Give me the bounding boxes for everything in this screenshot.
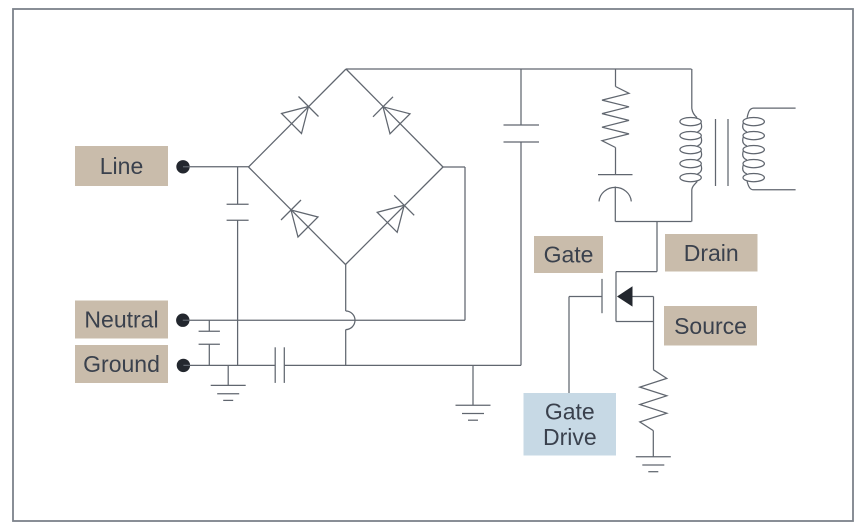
wire source down [653,297,655,370]
svg-text:Drive: Drive [543,424,597,450]
svg-text:Source: Source [674,313,747,339]
diode D4 bridge bottom-right [377,205,404,232]
transformer T1 core [715,119,717,186]
label Gate [534,236,603,273]
transformer T1 primary winding [691,69,693,109]
svg-text:Ground: Ground [83,351,160,377]
svg-text:Gate: Gate [545,398,595,424]
svg-text:Neutral: Neutral [84,307,158,333]
wire bridge edge top-right [346,69,443,167]
capacitor C5 with curved plate [615,148,617,175]
transistor Q1 arrow [617,286,633,306]
ground symbol source [652,431,654,457]
transformer T1 secondary winding [743,108,796,190]
diode D3 bridge bottom-left [291,210,318,237]
label Line [75,146,168,186]
label Drain [665,234,758,272]
wire bridge edge left-top [249,69,347,167]
capacitor C1 below Line [237,167,239,204]
diode D2 bridge top-right [383,107,410,134]
label Ground [75,345,168,383]
wire Neutral rail [183,319,465,321]
svg-text:Drain: Drain [684,240,739,266]
wire C1 down to ground rail [237,220,239,365]
label Gate Drive [524,393,617,456]
wire top rail [346,68,692,70]
wire Ground rail left segment [183,364,275,366]
ground symbol center [472,365,474,405]
capacitor C2 bulk [520,69,522,125]
wire snubber bottom rail [615,221,691,223]
svg-text:Gate: Gate [544,242,594,268]
node Neutral terminal dot [176,314,189,327]
wire gate lead [569,296,602,298]
wire bridge edge bottom-right [346,167,444,265]
wire Line to bridge left vertex [183,166,249,168]
node Ground terminal dot [177,359,190,372]
svg-text:Line: Line [100,153,143,179]
transistor Q1 gate plate [601,279,603,313]
ground symbol left [227,365,229,385]
wire bridge right vertex to neutral rail [443,166,465,168]
wire Ground rail right segment [284,364,521,366]
wire drain drop [656,222,658,272]
label Source [664,306,757,346]
resistor R1 snubber [615,69,617,87]
capacitor C3 between neutral and ground [208,320,210,331]
label Neutral [75,301,168,339]
diode D1 bridge top-left [282,107,309,134]
transistor Q1 MOSFET [616,271,657,273]
wire bridge edge left-bottom [249,167,346,265]
wire C2 down to ground rail [520,142,522,365]
resistor R2 source [640,370,667,431]
wire bridge bottom vertex down with hop over neutral [345,265,347,312]
capacitor C4 in ground rail [274,347,276,383]
node Line terminal dot [176,160,189,173]
